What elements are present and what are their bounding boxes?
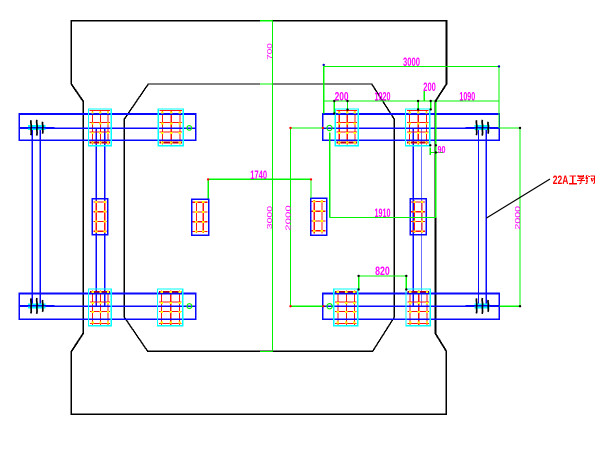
svg-text:200: 200 — [335, 92, 349, 104]
dim vertical 700/3000 line — [271, 21, 273, 352]
svg-text:3000: 3000 — [265, 206, 274, 229]
dim 2000 left vertical — [290, 128, 292, 306]
svg-text:1920: 1920 — [375, 92, 391, 104]
node circle upper-left beam — [187, 126, 192, 131]
break symbol upper-right — [474, 125, 489, 130]
svg-text:200: 200 — [423, 82, 436, 94]
clamp block lower-right #1 border — [334, 289, 358, 326]
dim 2000 right vertical — [519, 128, 521, 306]
clamp block upper-left #2 grid — [160, 109, 182, 111]
dim tick stub top — [260, 20, 272, 22]
clamp block lower-right #2 grid — [407, 301, 429, 303]
clamp block upper-left #1 border — [88, 109, 111, 146]
hanging splice block centre-right — [311, 198, 327, 235]
dim 820 — [359, 275, 407, 277]
svg-text:2000: 2000 — [284, 205, 293, 230]
clamp block lower-left #2 border — [158, 289, 183, 326]
clamp block upper-right #1 border — [335, 109, 358, 146]
svg-text:700: 700 — [265, 43, 274, 60]
clamp block upper-right #2 grid — [407, 109, 429, 111]
dim tick stub middle — [260, 83, 272, 85]
upper-right I-beam — [323, 114, 500, 140]
lower-right I-beam — [323, 294, 500, 320]
svg-text:1910: 1910 — [375, 208, 391, 220]
label CJK gong — [569, 176, 577, 184]
hanging splice block far-left — [92, 199, 107, 235]
hanging splice block far-right — [410, 199, 426, 235]
pier outer outline — [71, 21, 446, 415]
svg-text:3000: 3000 — [403, 57, 420, 69]
post pair far-right — [477, 128, 479, 306]
clamp block upper-left #2 border — [158, 109, 183, 146]
clamp block lower-left #1 grid — [90, 301, 110, 303]
clamp block upper-right #2 border — [406, 109, 430, 146]
clamp block upper-left #1 grid — [90, 109, 110, 111]
clamp block lower-right #1 grid — [335, 301, 356, 303]
clamp block upper-right #1 grid — [337, 109, 357, 111]
svg-text:2000: 2000 — [513, 206, 522, 230]
svg-text:22A: 22A — [553, 175, 569, 187]
break symbol lower-right — [474, 303, 489, 308]
post pair far-left — [31, 128, 33, 306]
clamp block lower-right #2 border — [406, 289, 430, 326]
svg-text:1090: 1090 — [459, 92, 475, 104]
post pair centre-right — [412, 128, 414, 306]
dim tick stub bottom — [260, 351, 272, 353]
dim 3000 top — [324, 65, 499, 67]
label CJK zi — [577, 175, 585, 184]
label CJK gang — [586, 175, 595, 184]
svg-text:1740: 1740 — [250, 170, 267, 182]
break symbol lower-left — [28, 303, 45, 308]
hanging splice block centre-left — [192, 199, 209, 235]
node circle upper-right beam — [327, 125, 332, 130]
dim 1740 — [208, 178, 311, 180]
pier inner octagon outline — [124, 84, 394, 351]
clamp block lower-left #2 grid — [159, 301, 182, 303]
clamp block lower-left #1 border — [89, 289, 112, 326]
leader line 22A — [487, 179, 551, 218]
dim extension long right — [435, 101, 437, 218]
node circle lower-right beam — [327, 304, 332, 309]
dim 90 — [430, 152, 444, 154]
svg-text:820: 820 — [375, 266, 390, 278]
break symbol upper-left — [28, 125, 46, 130]
dim chain row 200/1920/200/1090 — [324, 100, 499, 102]
node circle lower-left beam — [187, 304, 192, 309]
dim 1910 — [330, 217, 436, 219]
upper-left I-beam — [19, 114, 195, 140]
lower-left I-beam — [19, 294, 195, 320]
svg-text:90: 90 — [438, 144, 446, 156]
post pair centre-left — [95, 128, 97, 306]
